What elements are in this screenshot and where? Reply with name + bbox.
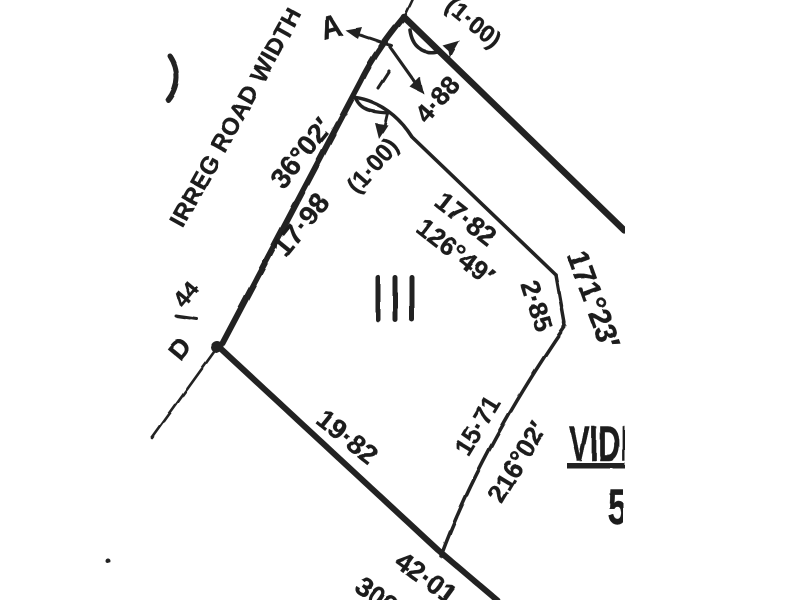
lot number III bbox=[376, 275, 415, 322]
svg-text:4·88: 4·88 bbox=[409, 70, 466, 129]
arrowhead at A bbox=[345, 27, 362, 39]
svg-text:15·71: 15·71 bbox=[450, 391, 507, 460]
road edge thin top line bbox=[404, 0, 413, 18]
arrowhead on road line bbox=[443, 41, 461, 59]
svg-text:19·82: 19·82 bbox=[311, 404, 384, 471]
node D dot bbox=[211, 341, 223, 353]
road SE edge line bbox=[404, 17, 625, 231]
splay arc near road junction bbox=[410, 30, 437, 52]
svg-text:IRREG ROAD WIDTH: IRREG ROAD WIDTH bbox=[165, 3, 308, 232]
svg-text:171°23′: 171°23′ bbox=[560, 246, 626, 354]
4.88 dimension leader arrow bbox=[390, 47, 417, 85]
underline stroke below 44 bbox=[176, 316, 197, 319]
svg-text:A: A bbox=[316, 7, 345, 48]
svg-text:(1·00): (1·00) bbox=[342, 133, 404, 199]
corner segment 2.85 bbox=[556, 275, 565, 326]
thin line from node D bbox=[152, 352, 214, 438]
south boundary (19.82 / 42.01) bbox=[220, 348, 497, 600]
label VIDE (cut at right) bbox=[567, 415, 641, 471]
offset leader with down arrow bbox=[378, 71, 389, 88]
svg-text:42·01: 42·01 bbox=[389, 546, 463, 600]
svg-text:2·85: 2·85 bbox=[515, 277, 560, 336]
lot III NW boundary along road bbox=[220, 17, 404, 348]
svg-text:D: D bbox=[162, 332, 198, 366]
svg-text:5: 5 bbox=[608, 480, 627, 536]
svg-text:36°02′: 36°02′ bbox=[264, 112, 339, 194]
arrow leader to point A bbox=[354, 33, 392, 46]
svg-text:44: 44 bbox=[168, 276, 204, 312]
lot III NE boundary (17.82) bbox=[352, 98, 556, 276]
curve fragment top-left bbox=[168, 56, 177, 100]
SE boundary (15.71) bbox=[441, 326, 565, 556]
splay arc at lot NE corner start bbox=[356, 99, 388, 113]
small stray dot bbox=[106, 559, 111, 564]
partial digit 5 (cut at right) bbox=[608, 480, 627, 536]
